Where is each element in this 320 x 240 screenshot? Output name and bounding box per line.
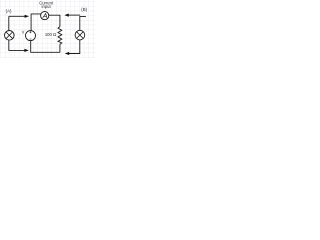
- svg-text:input: input: [42, 4, 52, 9]
- wire: right lamp top to terminal B stub: [79, 16, 81, 30]
- lamp DS1 left: [5, 31, 15, 41]
- lamp DS2 right: [75, 30, 85, 40]
- wire: resistor bottom lead: [59, 44, 61, 52]
- wire: top right current arrow toward resistor: [69, 14, 81, 16]
- wire: terminal A vertical to left lamp: [8, 16, 10, 30]
- wire: voltmeter top branch to ammeter: [31, 14, 41, 31]
- wire: bottom bus voltmeter to resistor: [31, 41, 60, 53]
- svg-text:V: V: [22, 29, 25, 34]
- svg-text:100 Ω: 100 Ω: [45, 32, 56, 37]
- svg-text:(B): (B): [81, 7, 87, 12]
- resistor R1 zigzag: [58, 27, 62, 45]
- ammeter / current source U1: [41, 12, 49, 20]
- wire: terminal A horizontal with current arrow: [9, 15, 26, 17]
- wire: right lamp bottom with current arrow: [69, 40, 80, 54]
- svg-text:(A): (A): [6, 9, 12, 14]
- wire: ammeter right to resistor top: [49, 15, 60, 26]
- voltmeter M1: [26, 31, 36, 41]
- wire: left lamp bottom with current arrow: [9, 40, 26, 50]
